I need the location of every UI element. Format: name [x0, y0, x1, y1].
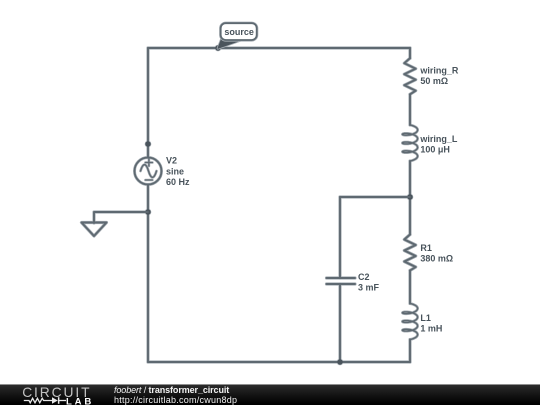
- V2 minus sign: [145, 179, 152, 181]
- node dot on top wire (source flag) (halo): [215, 45, 222, 52]
- junction dot middle right (halo): [407, 194, 414, 201]
- wire: bottom horizontal: [148, 361, 410, 363]
- wire: wiring_L to R1 (halo): [408, 161, 411, 235]
- wire: left vertical lower (halo): [146, 185, 149, 363]
- source callout tail: [218, 39, 244, 48]
- junction dot middle right: [407, 194, 412, 199]
- wire: top horizontal: [148, 47, 410, 49]
- footer line 2: url: [114, 395, 237, 405]
- resistor wiring_R zigzag: [404, 58, 415, 94]
- wire: middle horizontal branch (halo): [340, 195, 410, 198]
- wire: R1 to L1 (halo): [408, 271, 411, 304]
- wire: L1 to bottom wire: [409, 340, 411, 363]
- V2 plus sign (halo): [145, 159, 152, 166]
- svg-text:380 mΩ: 380 mΩ: [420, 254, 453, 264]
- V2 plus sign: [145, 159, 152, 166]
- junction dot bottom of capacitor branch: [337, 359, 342, 364]
- label R1 / 380 mOhm: [420, 243, 453, 263]
- wire: right vertical top: [409, 48, 411, 58]
- svg-text:50 mΩ: 50 mΩ: [420, 76, 448, 86]
- label wiring_L / 100 uH: [419, 134, 458, 155]
- wire: left vertical lower: [147, 185, 149, 363]
- voltage source V2 circle (halo): [135, 158, 162, 185]
- svg-text:R1: R1: [420, 243, 432, 253]
- label V2 / sine / 60 Hz: [166, 156, 190, 187]
- dark core layer of all schematic strokes: [82, 45, 418, 364]
- svg-text:V2: V2: [166, 156, 177, 166]
- wire: wiring_R to wiring_L: [409, 94, 411, 125]
- source callout text: [224, 27, 254, 37]
- resistor R1 zigzag: [404, 235, 415, 271]
- junction dot at ground tap (halo): [145, 209, 152, 216]
- footer bar: [0, 384, 540, 405]
- label wiring_R / 50 mOhm: [419, 65, 459, 85]
- capacitor C2 top plate: [327, 277, 356, 279]
- footer line 1: user / project: [114, 385, 229, 395]
- svg-text:3 mF: 3 mF: [358, 283, 380, 293]
- label L1 / 1 mH: [420, 313, 442, 334]
- svg-text:1 mH: 1 mH: [420, 324, 442, 334]
- soft halo layer of all schematic strokes: [82, 45, 418, 366]
- wire: capacitor branch lower (halo): [338, 284, 341, 362]
- V2 minus sign (halo): [145, 179, 152, 182]
- wire: capacitor branch upper: [339, 197, 341, 278]
- wire: capacitor branch upper (halo): [338, 197, 341, 278]
- wire: middle horizontal branch: [340, 196, 410, 198]
- node dot on top wire (source flag): [215, 45, 220, 50]
- wire: R1 to L1: [409, 271, 411, 304]
- inductor wiring_L coil: [402, 125, 417, 161]
- svg-text:sine: sine: [166, 166, 184, 176]
- svg-text:60 Hz: 60 Hz: [166, 177, 190, 187]
- junction dot bottom of capacitor branch (halo): [337, 359, 344, 366]
- wire: top horizontal (halo): [148, 46, 410, 49]
- ground symbol triangle: [82, 223, 107, 237]
- inductor L1 coil: [402, 304, 417, 340]
- junction dot at ground tap: [145, 209, 150, 214]
- node dot above V2 (halo): [145, 141, 152, 148]
- wire: bottom horizontal (halo): [148, 360, 410, 363]
- wire: L1 to bottom wire (halo): [408, 340, 411, 363]
- inductor wiring_L coil (halo): [402, 125, 417, 161]
- V2 sine wave (halo): [141, 165, 157, 178]
- resistor R1 zigzag (halo): [404, 235, 415, 271]
- voltage source V2 circle: [135, 158, 162, 185]
- capacitor C2 bottom plate: [327, 283, 356, 285]
- wire: wiring_L to R1: [409, 161, 411, 235]
- source callout box: [221, 23, 257, 40]
- wire: right vertical top (halo): [408, 48, 411, 58]
- svg-text:wiring_R: wiring_R: [419, 65, 459, 75]
- wire: left vertical upper: [147, 48, 149, 158]
- wire: wiring_R to wiring_L (halo): [408, 94, 411, 125]
- node dot above V2: [145, 141, 150, 146]
- wire: ground branch: [94, 212, 148, 223]
- svg-text:C2: C2: [358, 272, 370, 282]
- wire: capacitor branch lower: [339, 284, 341, 362]
- wire: left vertical upper (halo): [146, 48, 149, 158]
- ground symbol triangle (halo): [82, 223, 107, 237]
- wire: ground branch (halo): [94, 212, 148, 223]
- svg-text:100 μH: 100 μH: [420, 145, 450, 155]
- label C2 / 3 mF: [358, 272, 380, 293]
- resistor wiring_R zigzag (halo): [404, 58, 415, 94]
- inductor L1 coil (halo): [402, 304, 417, 340]
- CircuitLab logo: [0, 385, 110, 406]
- capacitor C2 top plate (halo): [327, 276, 356, 279]
- svg-text:L1: L1: [420, 313, 431, 323]
- svg-text:source: source: [224, 27, 254, 37]
- capacitor C2 bottom plate (halo): [327, 282, 356, 285]
- V2 sine wave: [141, 165, 157, 178]
- svg-text:wiring_L: wiring_L: [419, 134, 458, 144]
